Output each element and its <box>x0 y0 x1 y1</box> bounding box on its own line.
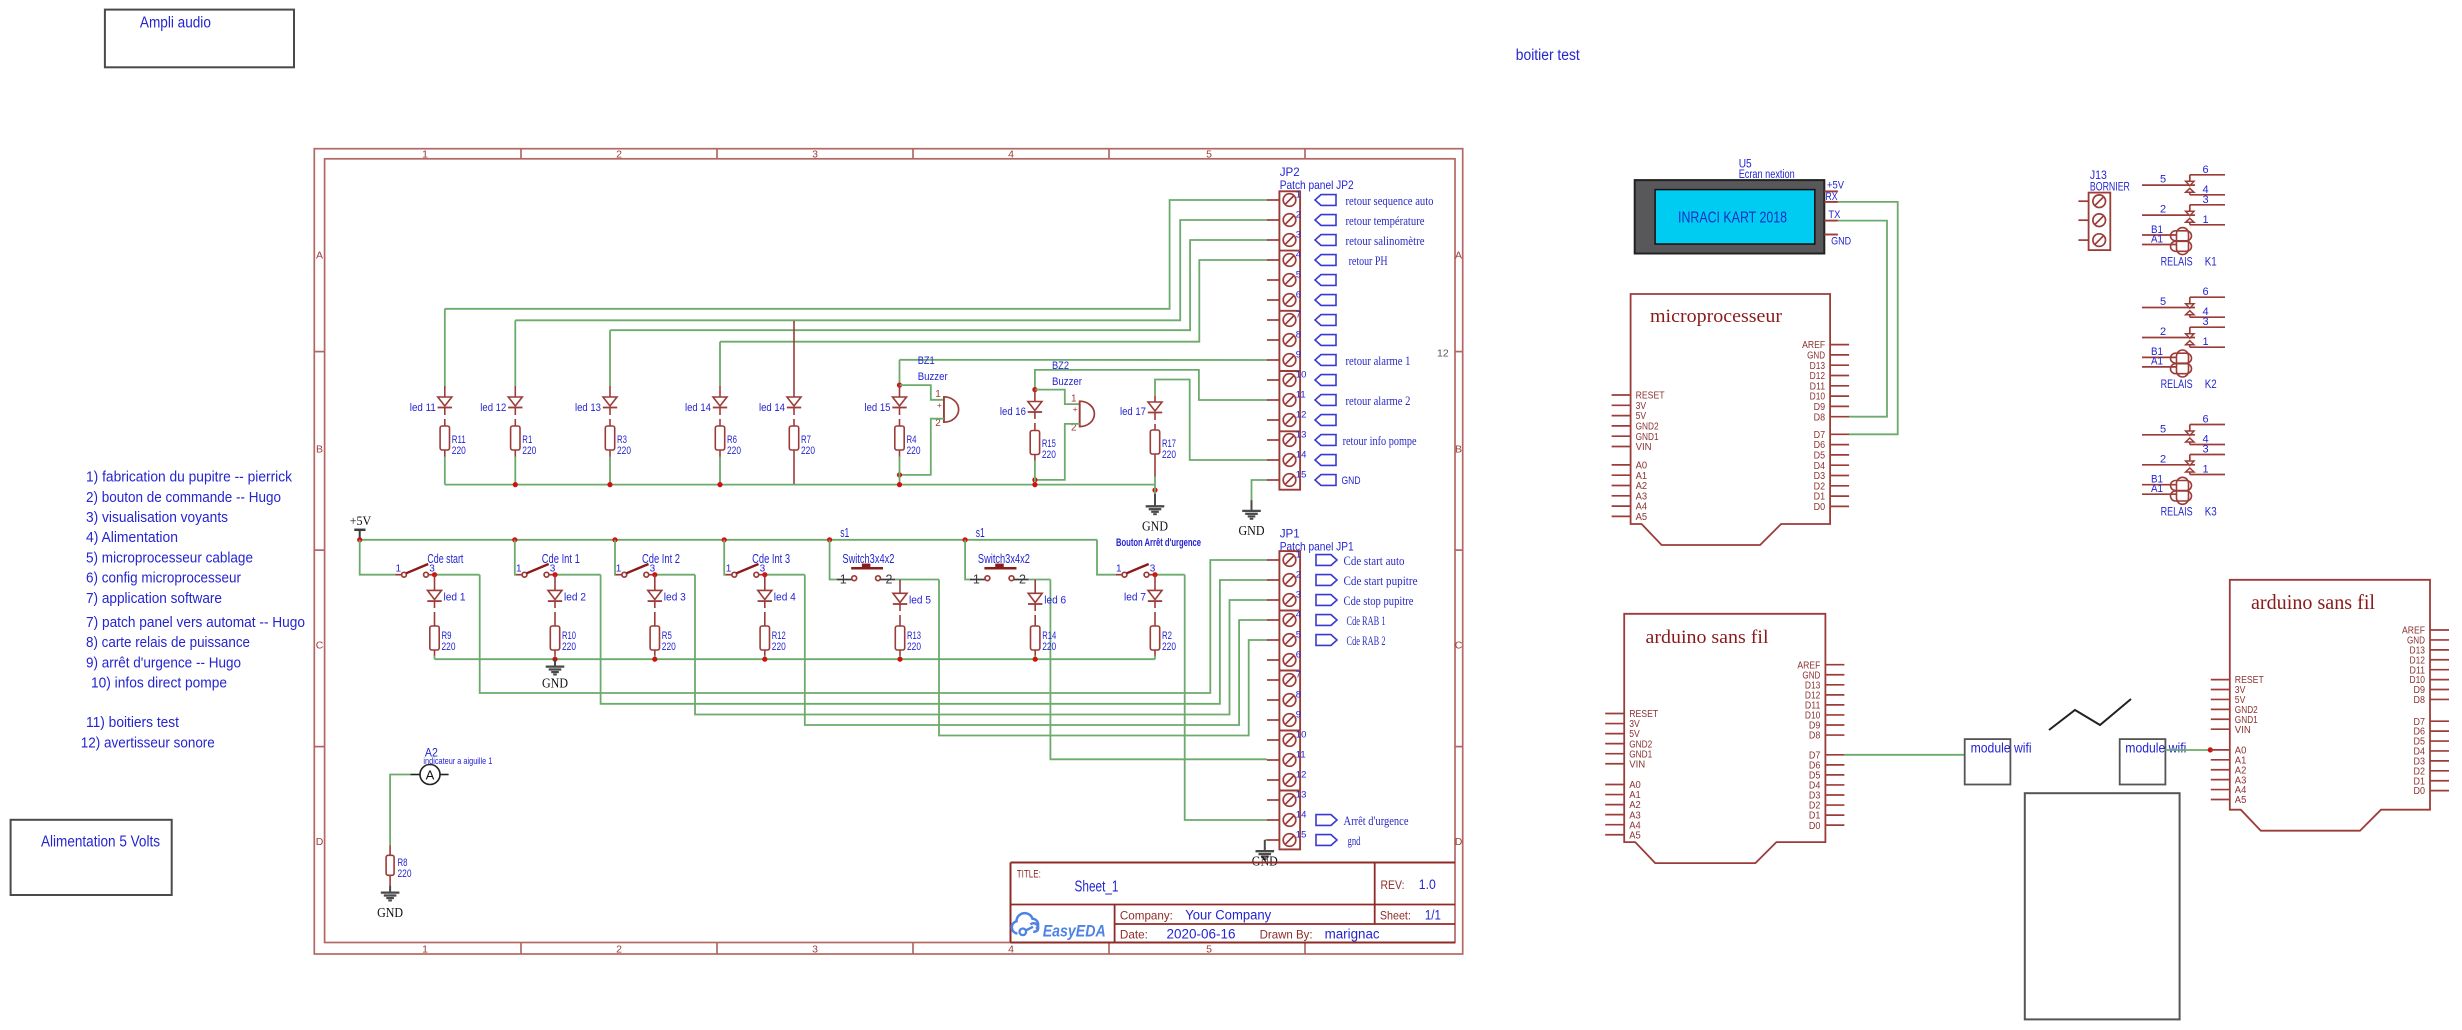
microprocesseur U-micro pin 3V <box>1612 404 1631 406</box>
svg-text:led 5: led 5 <box>909 595 931 607</box>
svg-text:220: 220 <box>562 641 576 653</box>
microprocesseur U-micro pin RESET <box>1612 394 1631 396</box>
relay K2 coil pin B1 <box>2142 356 2176 358</box>
arduino sans fil right pin D12 <box>2430 659 2449 661</box>
net flag JP2 pin 15 <box>1315 475 1336 486</box>
wire R8 to ground <box>389 875 391 885</box>
connector JP1 section dividers <box>1279 610 1300 612</box>
net flag JP2 pin 8 <box>1315 335 1336 346</box>
svg-text:9) arrêt d'urgence -- Hugo: 9) arrêt d'urgence -- Hugo <box>86 654 241 671</box>
svg-text:220: 220 <box>772 641 786 653</box>
microprocesseur U-micro pin GND <box>1830 354 1849 356</box>
svg-text:220: 220 <box>907 445 921 457</box>
svg-text:+5V: +5V <box>350 514 372 528</box>
wire module wifi 2 to arduino A0 <box>2165 749 2210 751</box>
svg-text:7) patch panel vers automat --: 7) patch panel vers automat -- Hugo <box>86 614 305 631</box>
svg-text:3: 3 <box>2202 194 2208 206</box>
connector JP1 pin 14 <box>1267 819 1279 821</box>
microprocesseur U-micro pin D13 <box>1830 364 1849 366</box>
svg-text:D: D <box>1455 836 1463 848</box>
resistor R8 220 <box>386 855 394 875</box>
svg-text:led 11: led 11 <box>410 402 436 414</box>
arduino sans fil left pin D12 <box>1825 694 1844 696</box>
net flag JP2 pin 11 <box>1315 395 1336 406</box>
svg-text:retour alarme 2: retour alarme 2 <box>1346 393 1411 408</box>
relay K2 coil <box>2177 350 2189 377</box>
resistor R2 220 <box>1150 626 1159 650</box>
svg-text:TITLE:: TITLE: <box>1017 869 1041 881</box>
wire junction to buzzer BZ2 pin 1 <box>1035 390 1080 405</box>
relay K1 coil pin B1 <box>2142 234 2176 236</box>
svg-text:10: 10 <box>1296 370 1307 381</box>
microprocesseur U-micro pin VIN <box>1612 446 1631 448</box>
svg-text:led 15: led 15 <box>865 402 891 414</box>
wire s1 #2 pin2 to led column <box>1029 579 1051 581</box>
microprocesseur U-micro pin D3 <box>1830 475 1849 477</box>
connector JP1 pin 3 <box>1267 599 1279 601</box>
wire R1 to rail <box>514 450 516 457</box>
connector JP2 pin 9 <box>1267 359 1279 361</box>
return wire Cde Int 1 to JP1 pin 2 <box>601 575 1267 704</box>
wire R13 to rail <box>899 650 901 656</box>
svg-text:10) infos direct pompe: 10) infos direct pompe <box>91 675 227 692</box>
arduino sans fil left pin A0 <box>1605 784 1624 786</box>
connector JP2 body <box>1279 191 1300 489</box>
microprocesseur U-micro pin AREF <box>1830 344 1849 346</box>
wire junction to buzzer BZ1 pin 1 <box>900 385 944 400</box>
wire R9 to rail <box>434 650 436 656</box>
switch Switch3x4x2 s1 #2 feed wire <box>965 540 970 580</box>
arduino sans fil right pin AREF <box>2430 629 2449 631</box>
svg-text:Switch3x4x2: Switch3x4x2 <box>978 552 1030 566</box>
switch Cde Int 3 toggle symbol <box>726 574 732 576</box>
junction arduino A0 <box>2208 747 2213 752</box>
LED led 4 <box>764 575 766 591</box>
wire R15 to rail <box>1034 455 1036 462</box>
svg-text:C: C <box>316 639 324 651</box>
connector J13 pin 2 <box>2078 219 2088 221</box>
arduino sans fil right pin D8 <box>2430 698 2449 700</box>
relay K1 pin 1 <box>2190 224 2225 226</box>
arduino sans fil left pin D4 <box>1825 784 1844 786</box>
wire led 12 to JP2 pin 2 <box>515 220 1267 320</box>
wire led 1 <box>434 601 436 608</box>
relay K3 contact 1 common pin 5 <box>2142 434 2195 436</box>
svg-text:12: 12 <box>1296 410 1307 421</box>
svg-text:4) Alimentation: 4) Alimentation <box>86 529 178 546</box>
svg-text:A: A <box>316 249 323 261</box>
pushbutton s1 #1 symbol <box>837 579 852 581</box>
arduino sans fil left pin A1 <box>1605 794 1624 796</box>
svg-text:1: 1 <box>973 573 980 587</box>
arduino sans fil left body <box>1624 614 1825 863</box>
arduino sans fil right pin A4 <box>2211 789 2230 791</box>
svg-text:retour sequence auto: retour sequence auto <box>1346 193 1434 208</box>
svg-text:220: 220 <box>452 445 466 457</box>
svg-text:8: 8 <box>1296 690 1301 701</box>
svg-text:14: 14 <box>1296 450 1307 461</box>
svg-text:Cde start auto: Cde start auto <box>1344 553 1405 568</box>
junction Cde Int 1 output <box>552 572 557 577</box>
relay K1 contact 1 moving contact <box>2186 181 2194 186</box>
svg-text:retour salinomètre: retour salinomètre <box>1346 233 1425 248</box>
wire JP2 pin15 to ground <box>1252 480 1268 500</box>
arduino sans fil right pin D7 <box>2430 720 2449 722</box>
arduino sans fil left pin GND2 <box>1605 743 1624 745</box>
svg-text:EasyEDA: EasyEDA <box>1043 923 1106 941</box>
svg-text:Drawn By:: Drawn By: <box>1260 928 1313 942</box>
svg-text:K3: K3 <box>2205 506 2217 518</box>
wire switch Cde Int 1 pin3 to junction <box>555 574 601 576</box>
net flag JP1 pin 4 <box>1316 615 1337 626</box>
microprocesseur U-micro pin A0 <box>1612 464 1631 466</box>
relay K2 coil pin A1 <box>2142 366 2176 368</box>
arduino sans fil right pin GND2 <box>2211 708 2230 710</box>
arduino sans fil left pin A4 <box>1605 824 1624 826</box>
svg-text:BORNIER: BORNIER <box>2090 182 2130 194</box>
connector JP1 pin 7 <box>1267 679 1279 681</box>
svg-text:VIN: VIN <box>1629 759 1645 770</box>
connector JP2 pin 6 <box>1267 299 1279 301</box>
svg-text:GND: GND <box>377 905 403 920</box>
relay K2 contact 2 moving contact <box>2186 334 2194 339</box>
svg-text:6: 6 <box>1296 290 1301 301</box>
svg-text:5) microprocesseur cablage: 5) microprocesseur cablage <box>86 549 253 566</box>
svg-text:led 13: led 13 <box>575 402 601 414</box>
svg-text:A5: A5 <box>2235 795 2247 806</box>
relay K1 coil <box>2177 228 2189 255</box>
svg-text:+: + <box>1073 404 1078 414</box>
connector JP2 pin 11 <box>1267 399 1279 401</box>
svg-text:B: B <box>316 443 323 455</box>
net flag JP2 pin 12 <box>1315 415 1336 426</box>
arduino sans fil left pin D9 <box>1825 724 1844 726</box>
wire led7 <box>1154 601 1156 608</box>
svg-text:Buzzer: Buzzer <box>918 371 948 383</box>
svg-text:13: 13 <box>1296 430 1307 441</box>
wire switch Cde Int 3 pin3 to junction <box>765 574 805 576</box>
relay K3 coil pin B1 <box>2142 484 2176 486</box>
connector JP1 pin 13 <box>1267 799 1279 801</box>
connector JP1 pin 4 <box>1267 619 1279 621</box>
svg-text:JP2: JP2 <box>1280 165 1300 179</box>
svg-text:A1: A1 <box>2151 356 2163 368</box>
svg-text:RELAIS: RELAIS <box>2161 379 2193 391</box>
microprocesseur U-micro pin D0 <box>1830 505 1849 507</box>
wire buzzer BZ1 pin 2 return <box>900 419 944 475</box>
buzzer BZ1 body <box>944 397 959 422</box>
svg-text:boitier test: boitier test <box>1516 47 1581 64</box>
svg-text:led 3: led 3 <box>664 592 686 604</box>
svg-text:J13: J13 <box>2090 170 2107 182</box>
svg-text:led 12: led 12 <box>480 402 506 414</box>
arduino sans fil right pin D1 <box>2430 780 2449 782</box>
LED led 2 <box>554 575 556 591</box>
microprocesseur U-micro pin D5 <box>1830 454 1849 456</box>
net flag JP1 pin 14 <box>1316 815 1337 826</box>
wire R4 to rail <box>899 450 901 457</box>
svg-text:microprocesseur: microprocesseur <box>1650 306 1783 327</box>
arduino sans fil right pin D0 <box>2430 790 2449 792</box>
relay K1 contact 1 common pin 5 <box>2142 184 2195 186</box>
relay K3 contact 2 common pin 2 <box>2142 464 2195 466</box>
relay K2 contact 1 common pin 5 <box>2142 307 2195 309</box>
arduino sans fil left pin D0 <box>1825 824 1844 826</box>
svg-text:220: 220 <box>662 641 676 653</box>
LED led 17 <box>1154 396 1156 402</box>
connector JP2 pin 15 <box>1267 479 1279 481</box>
net flag JP2 pin 14 <box>1315 455 1336 466</box>
svg-text:s1: s1 <box>840 526 849 540</box>
svg-text:Company:: Company: <box>1120 909 1173 923</box>
svg-text:1) fabrication du pupitre -- p: 1) fabrication du pupitre -- pierrick <box>86 469 292 486</box>
svg-text:TX: TX <box>1828 209 1841 221</box>
svg-text:+: + <box>937 400 942 410</box>
svg-text:led 7: led 7 <box>1124 592 1146 604</box>
net flag JP1 pin 3 <box>1316 595 1337 606</box>
connector JP1 pin 2 <box>1267 579 1279 581</box>
led 14 duplicate column (R7) unconnected stub <box>793 321 795 397</box>
microprocesseur U-micro pin GND2 <box>1612 425 1631 427</box>
LCD U5 pins <box>1824 190 1838 192</box>
svg-text:GND: GND <box>1239 523 1265 538</box>
wire led15 to R4 <box>899 408 901 416</box>
arduino sans fil left pin D10 <box>1825 714 1844 716</box>
svg-text:retour alarme 1: retour alarme 1 <box>1346 353 1411 368</box>
svg-text:1: 1 <box>935 389 941 400</box>
wire R3 to rail <box>609 450 611 457</box>
wire led 14 to JP2 pin 4 <box>720 260 1267 342</box>
svg-text:1: 1 <box>2202 464 2208 476</box>
LED led 6 <box>1034 580 1036 594</box>
microprocesseur U-micro pin D10 <box>1830 395 1849 397</box>
svg-text:3: 3 <box>2202 444 2208 456</box>
arduino sans fil left pin GND <box>1825 674 1844 676</box>
connector JP2 pin 7 <box>1267 319 1279 321</box>
microprocesseur U-micro pin GND1 <box>1612 435 1631 437</box>
arduino sans fil left pin 3V <box>1605 723 1624 725</box>
svg-text:arduino sans fil: arduino sans fil <box>1646 627 1769 648</box>
resistor R6 220 <box>715 426 724 450</box>
arduino sans fil right pin D10 <box>2430 679 2449 681</box>
svg-text:A5: A5 <box>1636 512 1648 523</box>
connector JP2 pin 13 <box>1267 439 1279 441</box>
return wire s1 #2 to JP1 pin 11 <box>1050 580 1267 760</box>
svg-text:GND: GND <box>1252 854 1278 869</box>
ground symbol below R17 <box>1154 494 1156 507</box>
svg-text:led 14: led 14 <box>759 402 785 414</box>
svg-text:220: 220 <box>907 641 921 653</box>
svg-text:module wifi: module wifi <box>2125 740 2186 756</box>
microprocesseur U-micro pin D12 <box>1830 375 1849 377</box>
svg-text:Sheet:: Sheet: <box>1380 909 1411 923</box>
LED led 7 <box>1154 575 1156 591</box>
relay K3 pin 1 <box>2190 474 2225 476</box>
relay K3 coil <box>2177 477 2189 504</box>
resistor R9 220 <box>430 626 439 650</box>
svg-text:220: 220 <box>617 445 631 457</box>
svg-text:4: 4 <box>1008 148 1014 160</box>
arduino sans fil left pin D13 <box>1825 684 1844 686</box>
net flag JP1 pin 1 <box>1316 555 1337 566</box>
sheet row ticks left/right <box>314 351 324 353</box>
arduino sans fil right pin GND <box>2430 639 2449 641</box>
microprocesseur U-micro pin D8 <box>1830 416 1849 418</box>
svg-text:7: 7 <box>1296 670 1301 681</box>
sheet border outer frame <box>314 149 1462 954</box>
junction led15 top <box>897 383 902 388</box>
relay K2 pin 4 <box>2190 316 2225 318</box>
LCD U5 outer body <box>1635 180 1825 253</box>
wire R11 to rail <box>444 450 446 457</box>
svg-text:K1: K1 <box>2205 257 2217 269</box>
module wifi box 2 <box>2120 739 2166 784</box>
svg-text:14: 14 <box>1296 810 1307 821</box>
svg-text:retour température: retour température <box>1346 213 1425 228</box>
svg-text:led 6: led 6 <box>1044 595 1066 607</box>
net flag JP1 pin 5 <box>1316 635 1337 646</box>
arduino sans fil right body <box>2230 580 2430 831</box>
svg-text:REV:: REV: <box>1381 878 1405 892</box>
svg-text:1: 1 <box>1296 550 1301 561</box>
wire led17 to R17 <box>1154 413 1156 421</box>
svg-text:D8: D8 <box>1814 412 1826 423</box>
svg-text:arduino sans fil: arduino sans fil <box>2251 590 2375 614</box>
buzzer BZ2 body <box>1080 401 1095 426</box>
svg-text:1: 1 <box>516 564 522 575</box>
arduino sans fil right pin 3V <box>2211 689 2230 691</box>
junction switch7 output <box>1152 572 1157 577</box>
microprocesseur U-micro pin D9 <box>1830 405 1849 407</box>
relay K3 contact 2 moving contact <box>2186 461 2194 466</box>
svg-text:module wifi: module wifi <box>1971 740 2032 756</box>
wire BZ2 net to JP2 pin 11 (retour alarme 2) <box>1035 370 1267 400</box>
junction Cde start output <box>432 572 437 577</box>
resistor R15 220 <box>1030 431 1039 455</box>
wire led 13 to R3 <box>609 408 611 416</box>
net flag JP1 pin 15 <box>1316 835 1337 846</box>
svg-text:Alimentation 5 Volts: Alimentation 5 Volts <box>41 834 160 851</box>
switch Switch3x4x2 s1 #1 feed wire <box>830 540 837 580</box>
connector JP2 pin 3 <box>1267 239 1279 241</box>
svg-text:Buzzer: Buzzer <box>1052 376 1082 388</box>
junction R17 ground <box>1152 488 1157 493</box>
svg-text:A5: A5 <box>1629 830 1641 841</box>
svg-text:VIN: VIN <box>2235 725 2251 736</box>
svg-text:RX: RX <box>1826 191 1839 203</box>
arduino sans fil right pin A5 <box>2211 799 2230 801</box>
svg-text:2: 2 <box>1296 570 1301 581</box>
microprocesseur U-micro pin A4 <box>1612 505 1631 507</box>
svg-text:2: 2 <box>886 573 893 587</box>
svg-text:retour info pompe: retour info pompe <box>1343 433 1417 448</box>
svg-text:marignac: marignac <box>1325 927 1380 942</box>
microprocesseur U-micro body <box>1631 294 1831 545</box>
connector JP2 pin 2 <box>1267 219 1279 221</box>
resistor R11 220 <box>440 426 449 450</box>
wire led 12 vertical <box>514 320 516 386</box>
svg-text:5: 5 <box>1206 148 1212 160</box>
microprocesseur U-micro pin D7 <box>1830 433 1849 435</box>
svg-text:5: 5 <box>2160 296 2166 308</box>
wire led14b to R7 <box>793 408 795 416</box>
connector JP2 pin 4 <box>1267 259 1279 261</box>
svg-text:1: 1 <box>726 564 732 575</box>
svg-text:3: 3 <box>2202 316 2208 328</box>
Alimentation 5 Volts box <box>11 820 172 895</box>
svg-text:12) avertisseur sonore: 12) avertisseur sonore <box>81 734 215 751</box>
resistor R4 220 <box>895 426 904 450</box>
meter A2 pin stubs <box>410 774 420 776</box>
LED led 15 <box>899 385 901 397</box>
connector JP1 pin 12 <box>1267 779 1279 781</box>
svg-text:220: 220 <box>442 641 456 653</box>
arduino sans fil right pin RESET <box>2211 679 2230 681</box>
connector JP1 pin 6 <box>1267 659 1279 661</box>
svg-text:led 16: led 16 <box>1000 406 1026 418</box>
svg-text:6: 6 <box>2202 414 2208 426</box>
svg-text:7) application software: 7) application software <box>86 590 222 607</box>
relay K1 pin 6 <box>2190 174 2225 176</box>
wire R7 down stub <box>793 450 795 485</box>
svg-text:C: C <box>1455 639 1463 651</box>
return wire Cde Int 3 to JP1 pin 4 <box>805 575 1267 725</box>
svg-text:led 1: led 1 <box>444 592 466 604</box>
svg-text:5: 5 <box>2160 174 2166 186</box>
net flag JP2 pin 13 <box>1315 435 1336 446</box>
switch Cde Int 2 toggle symbol <box>616 574 622 576</box>
svg-text:220: 220 <box>398 868 412 880</box>
arduino sans fil left pin D11 <box>1825 704 1844 706</box>
relay K3 pin 6 <box>2190 424 2225 426</box>
net flag JP1 pin 2 <box>1316 575 1337 586</box>
microprocesseur U-micro pin D1 <box>1830 495 1849 497</box>
svg-text:7: 7 <box>1296 310 1301 321</box>
arduino sans fil right pin A0 <box>2211 749 2230 751</box>
wire led 4 <box>764 601 766 608</box>
switch Cde Int 2 feed wire <box>614 540 617 575</box>
wire led 6 <box>1034 604 1036 611</box>
svg-text:JP1: JP1 <box>1280 527 1300 541</box>
wire led 11 vertical <box>444 309 446 386</box>
svg-text:1: 1 <box>2202 214 2208 226</box>
arduino sans fil left pin A3 <box>1605 814 1624 816</box>
connector JP1 pin 10 <box>1267 739 1279 741</box>
svg-text:Ecran nextion: Ecran nextion <box>1739 169 1795 181</box>
svg-text:Cde RAB 1: Cde RAB 1 <box>1347 613 1386 628</box>
junction Cde Int 2 output <box>652 572 657 577</box>
microprocesseur U-micro pin D11 <box>1830 385 1849 387</box>
resistor R1 220 <box>511 426 520 450</box>
relay K2 pin 3 <box>2190 326 2225 328</box>
svg-text:11) boitiers test: 11) boitiers test <box>86 714 180 731</box>
arduino sans fil right pin D4 <box>2430 750 2449 752</box>
svg-text:2) bouton de commande -- Hugo: 2) bouton de commande -- Hugo <box>86 489 281 506</box>
svg-text:220: 220 <box>1042 641 1056 653</box>
connector JP2 pin 12 <box>1267 419 1279 421</box>
junction dots on +5V rail <box>357 537 362 542</box>
svg-text:BZ2: BZ2 <box>1052 360 1069 372</box>
wire led 11 to R11 <box>444 408 446 416</box>
arduino sans fil right pin VIN <box>2211 728 2230 730</box>
connector JP1 body <box>1279 551 1300 849</box>
svg-text:2: 2 <box>1019 573 1026 587</box>
arduino sans fil right pin 5V <box>2211 698 2230 700</box>
svg-text:led 4: led 4 <box>774 592 796 604</box>
switch Cde start feed wire <box>360 540 396 575</box>
svg-text:D: D <box>316 836 324 848</box>
connector JP1 pin 1 <box>1267 559 1279 561</box>
